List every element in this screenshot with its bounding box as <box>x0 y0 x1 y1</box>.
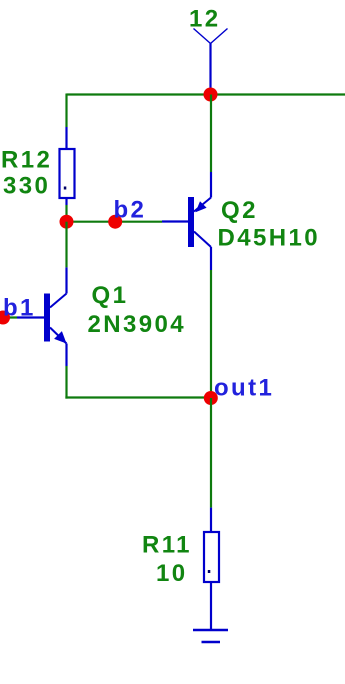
svg-text:R12: R12 <box>1 147 52 174</box>
transistor Q1 <box>17 267 67 366</box>
svg-text:2N3904: 2N3904 <box>88 311 186 338</box>
wire left vertical from rail to R12 <box>65 94 67 128</box>
wire b1 stub <box>0 316 17 318</box>
svg-text:Q2: Q2 <box>221 197 258 224</box>
svg-text:10: 10 <box>156 560 188 587</box>
wire Q2 collector to out1 <box>210 270 212 398</box>
node junction 12V rail <box>204 88 218 102</box>
wire Q1 emitter down <box>65 366 67 399</box>
svg-text:b1: b1 <box>3 295 36 322</box>
resistor R12 <box>60 127 75 205</box>
node out1 junction <box>204 391 218 405</box>
svg-text:out1: out1 <box>214 375 274 402</box>
svg-text:D45H10: D45H10 <box>218 224 320 251</box>
node junction under R12 <box>60 215 74 229</box>
resistor R11 <box>204 508 219 630</box>
node b1 <box>0 311 10 325</box>
svg-text:R11: R11 <box>142 532 192 559</box>
wire left vertical b2-node to Q1 <box>65 222 67 268</box>
wire b2 horizontal <box>67 221 163 223</box>
wire Q2 emitter to rail <box>210 95 212 173</box>
node b2 junction <box>108 215 122 229</box>
svg-text:b2: b2 <box>114 197 147 224</box>
svg-text:330: 330 <box>3 173 50 200</box>
ground <box>193 630 228 642</box>
supply V symbol <box>194 29 228 44</box>
wire out1 down to R11 <box>210 398 212 508</box>
wire bottom horizontal to out1 <box>65 396 211 398</box>
wire top rail <box>67 93 345 95</box>
supply pin wire <box>209 44 211 95</box>
wire R12 to node b2 <box>65 205 67 222</box>
transistor Q2 <box>162 172 211 270</box>
svg-text:Q1: Q1 <box>92 282 129 309</box>
